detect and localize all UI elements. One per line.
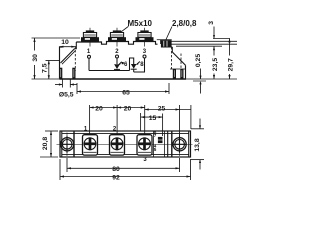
node 1 stem wire [88,59,90,71]
right mounting boss top line [170,68,186,70]
hidden hole edge left (dashed) [74,46,76,71]
node 1 [88,55,91,58]
dim 65 [77,83,169,97]
right mounting boss hatched wall left [173,69,176,79]
dim 30 [32,38,81,79]
left pad right edge [73,131,75,157]
svg-text:10: 10 [61,39,69,46]
svg-text:2: 2 [113,127,117,133]
svg-text:1: 1 [87,49,91,55]
module baseplate bottom line [60,78,187,80]
svg-text:2,8/0,8: 2,8/0,8 [172,19,197,28]
svg-text:20,8: 20,8 [42,137,49,150]
gate fast-on pads [158,137,163,140]
right pad left edge [171,131,173,157]
inner outline bottom [62,154,189,156]
node 2 [116,55,119,58]
wire thyristor2 to node 3 [134,58,145,72]
step up to top surface [75,42,77,49]
svg-text:20: 20 [124,105,132,112]
right top surface [171,46,173,48]
node 3 [143,55,146,58]
svg-text:8: 8 [140,62,144,68]
left body edge [60,47,63,79]
dim 15 [141,115,163,122]
dim 92 [60,174,191,181]
left hole vertical centerline [66,133,68,157]
terminal 3 screw stack [136,28,154,47]
right mounting boss hatched wall right [180,69,183,79]
terminal 1 screw stack [81,28,99,47]
dim diameter 5,5 [55,80,77,99]
dim 80 [67,166,180,173]
module outline [60,131,191,157]
svg-text:80: 80 [112,166,120,173]
dim 0,25 [193,54,206,94]
terminal block 1 [83,135,98,155]
left mounting hole [61,138,74,151]
horizontal centerline [57,144,193,146]
thyristor 1 gate arrow [118,62,121,66]
svg-text:0,25: 0,25 [195,54,202,67]
fast-on tab block [157,40,172,48]
svg-text:3: 3 [143,157,147,163]
dim 20 (1-2) [90,105,118,112]
right hole vertical centerline [179,133,181,157]
inner divider near pins [167,131,169,157]
svg-text:7: 7 [154,133,157,138]
svg-text:25: 25 [158,105,166,112]
svg-text:15: 15 [149,115,157,122]
left chamfer second line [62,51,75,64]
baseline extension to right dims [186,78,237,80]
svg-text:M5x10: M5x10 [128,19,153,28]
right top corner edge [171,47,173,52]
svg-text:20: 20 [95,105,103,112]
dim 20,8 [40,131,58,157]
dim 29,7 [228,39,236,80]
svg-text:5: 5 [154,147,157,152]
thyristor 2 gate arrow [136,62,140,66]
terminal block 3 [137,135,152,155]
left mounting boss hatched wall right [72,68,75,79]
right top surface extension line [176,45,222,47]
svg-text:Ø5,5: Ø5,5 [59,92,74,99]
svg-text:6: 6 [124,62,128,68]
extension lines bottom [60,158,191,180]
svg-text:92: 92 [112,174,120,181]
leader 2,8/0,8 [166,27,172,40]
right mounting hole [173,138,186,151]
leader M5x10 [120,26,129,33]
svg-text:1: 1 [84,127,88,133]
dim 3 (tab) [208,21,230,39]
thyristor 1 [114,64,120,70]
svg-text:13,8: 13,8 [194,138,201,151]
svg-text:3: 3 [208,21,215,25]
node 2 anode wire [116,58,118,64]
gate pin section divider left [153,131,155,157]
baseline extension to left dims [32,78,60,80]
svg-text:30: 30 [32,54,39,62]
gate pin section divider right [164,131,166,157]
terminal block 2 [110,135,125,155]
right chamfer [172,52,185,65]
right body edge [185,65,187,78]
dim 7,5 [41,61,60,80]
left end cap line [61,131,63,157]
thyristor 2 [131,64,137,72]
terminal 2 screw stack [108,28,126,47]
bump wire to thyristor 2 [130,58,134,71]
dim 13,8 [191,119,204,170]
dim 25 [145,105,191,112]
left chamfer line [61,49,75,63]
svg-text:3: 3 [143,49,147,55]
top profile with terminal pedestals [76,42,157,45]
right end cap line [188,131,190,157]
svg-text:23,5: 23,5 [212,58,219,71]
extension lines top [90,105,191,138]
svg-text:29,7: 29,7 [228,58,235,71]
svg-text:7,5: 7,5 [41,63,48,73]
inner outline top [62,133,189,135]
dim 10 [59,39,75,48]
bottom wire 1-2 [89,70,130,72]
svg-text:2: 2 [115,49,119,55]
gate 1 tab square [122,62,124,64]
left mounting boss hatched wall left [59,68,62,79]
dim 20 (2-3) [117,105,145,112]
tab blade extension lines [171,40,238,42]
svg-text:65: 65 [122,90,130,97]
hidden hole edges right (dashed) [171,47,173,69]
dim 23,5 [212,46,220,79]
